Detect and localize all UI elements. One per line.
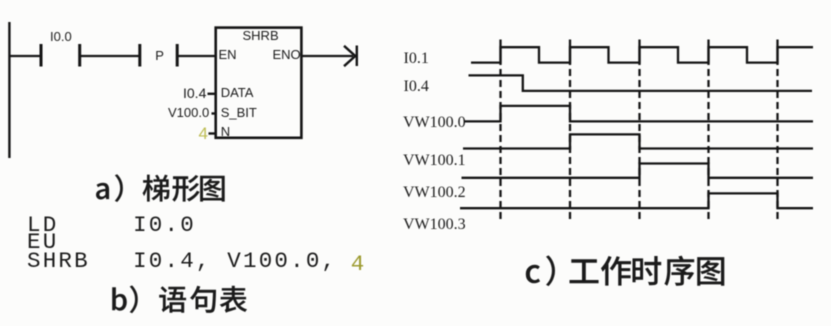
waveform I0.1 <box>471 47 813 62</box>
dashed line 1 <box>499 63 501 219</box>
dashed line 2 <box>569 63 571 219</box>
dashed line 3 <box>638 63 640 219</box>
function block SHRB box <box>216 28 302 138</box>
operand V100.0 <box>168 106 209 119</box>
pin label DATA <box>221 86 254 99</box>
I0.1 rising edge solid columns <box>501 40 778 63</box>
left power rail <box>8 22 10 158</box>
pin label ENO <box>273 48 301 61</box>
STL line 3 SHRB <box>27 250 90 273</box>
wire rail to contact I0.0 <box>9 55 40 57</box>
pin label N <box>221 125 230 138</box>
timing label VW100.3 <box>403 217 466 233</box>
pin tick DATA <box>208 93 216 95</box>
waveform VW100.3 <box>460 193 813 208</box>
contact I0.0 <box>41 44 80 67</box>
STL line 2 EU <box>27 231 58 254</box>
timing label VW100.2 <box>403 185 466 201</box>
wire contact I0.0 to contact P <box>81 55 140 57</box>
contact P (positive transition) <box>140 44 177 67</box>
caption c) working timing diagram <box>526 255 725 286</box>
output arrow head <box>344 46 355 66</box>
timing label I0.4 <box>404 79 429 95</box>
caption a) ladder diagram <box>96 174 225 202</box>
timing label I0.1 <box>404 51 429 67</box>
STL operand 4 (olive) <box>351 253 367 276</box>
pin label EN <box>219 48 237 61</box>
timing label VW100.1 <box>403 153 466 169</box>
operand 4 (olive) <box>199 127 208 140</box>
timing label VW100.0 <box>403 115 466 131</box>
waveform VW100.1 <box>463 134 813 148</box>
waveform VW100.0 <box>465 106 814 122</box>
dashed line 4 <box>707 63 709 219</box>
waveform I0.4 <box>469 75 813 91</box>
label I0.0 above contact <box>50 30 72 43</box>
pin label S_BIT <box>221 106 257 119</box>
STL line 1 LD <box>27 214 58 237</box>
operand I0.4 <box>183 87 206 100</box>
waveform VW100.2 <box>462 164 814 178</box>
timing diagram <box>460 40 813 220</box>
wire ENO to output arrow <box>301 55 353 57</box>
block title SHRB <box>243 29 279 42</box>
pin tick S_BIT <box>212 112 216 114</box>
dashed line 5 <box>776 63 778 219</box>
wire contact P to EN pin <box>179 55 217 57</box>
caption b) statement list <box>112 285 247 313</box>
pin tick N <box>209 132 216 134</box>
output arrow bar <box>356 46 358 67</box>
label P inside contact <box>155 49 164 62</box>
